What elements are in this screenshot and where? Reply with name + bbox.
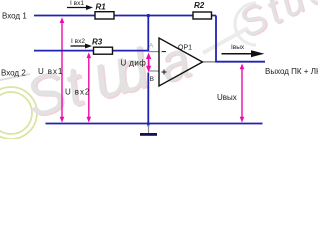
ground rail wire (46, 123, 263, 125)
resistor R2 (193, 1, 212, 19)
current arrow I вх1 (67, 0, 93, 10)
svg-text:I вх1: I вх1 (70, 0, 84, 7)
current arrow I вых (222, 44, 265, 57)
wire input 2 horizontal (34, 50, 149, 52)
svg-text:Uвых: Uвых (217, 93, 237, 102)
svg-text:U вх1: U вх1 (38, 67, 63, 76)
wire R2 to output vertical (215, 16, 217, 62)
svg-text:U вх2: U вх2 (65, 88, 90, 97)
svg-text:Вход 2: Вход 2 (1, 69, 26, 78)
wire stub to inverting input node A (148, 51, 159, 53)
svg-text:R2: R2 (194, 1, 205, 10)
wire ground stub (148, 124, 150, 133)
svg-text:R1: R1 (96, 3, 107, 12)
current arrow I вх2 (71, 38, 93, 49)
svg-text:A: A (149, 42, 154, 49)
svg-text:Выход ПК + ЛК: Выход ПК + ЛК (265, 67, 318, 76)
wire node B to ground rail vertical (147, 73, 149, 127)
voltage arrow U вх1 (60, 17, 65, 122)
svg-text:I вх2: I вх2 (71, 38, 85, 45)
resistor R1 (95, 3, 114, 20)
svg-text:U диф: U диф (121, 59, 147, 68)
svg-text:Вход 1: Вход 1 (2, 12, 27, 21)
voltage arrow U вых (240, 64, 245, 123)
resistor R3 (92, 37, 113, 54)
svg-text:Iвых: Iвых (231, 44, 245, 51)
voltage arrow U диф (146, 53, 151, 73)
wire output horizontal (215, 61, 265, 63)
svg-text:B: B (150, 76, 154, 83)
wire op-amp output lead (202, 61, 216, 63)
ground (140, 133, 157, 136)
svg-text:OP1: OP1 (178, 44, 192, 51)
op-amp OP1 (159, 38, 203, 86)
wire junction to node A vertical (147, 16, 149, 52)
svg-text:R3: R3 (92, 37, 103, 46)
wire input 1 horizontal (34, 15, 216, 17)
wire stub to non-inverting input node B (148, 70, 159, 72)
voltage arrow U вх2 (87, 52, 92, 122)
